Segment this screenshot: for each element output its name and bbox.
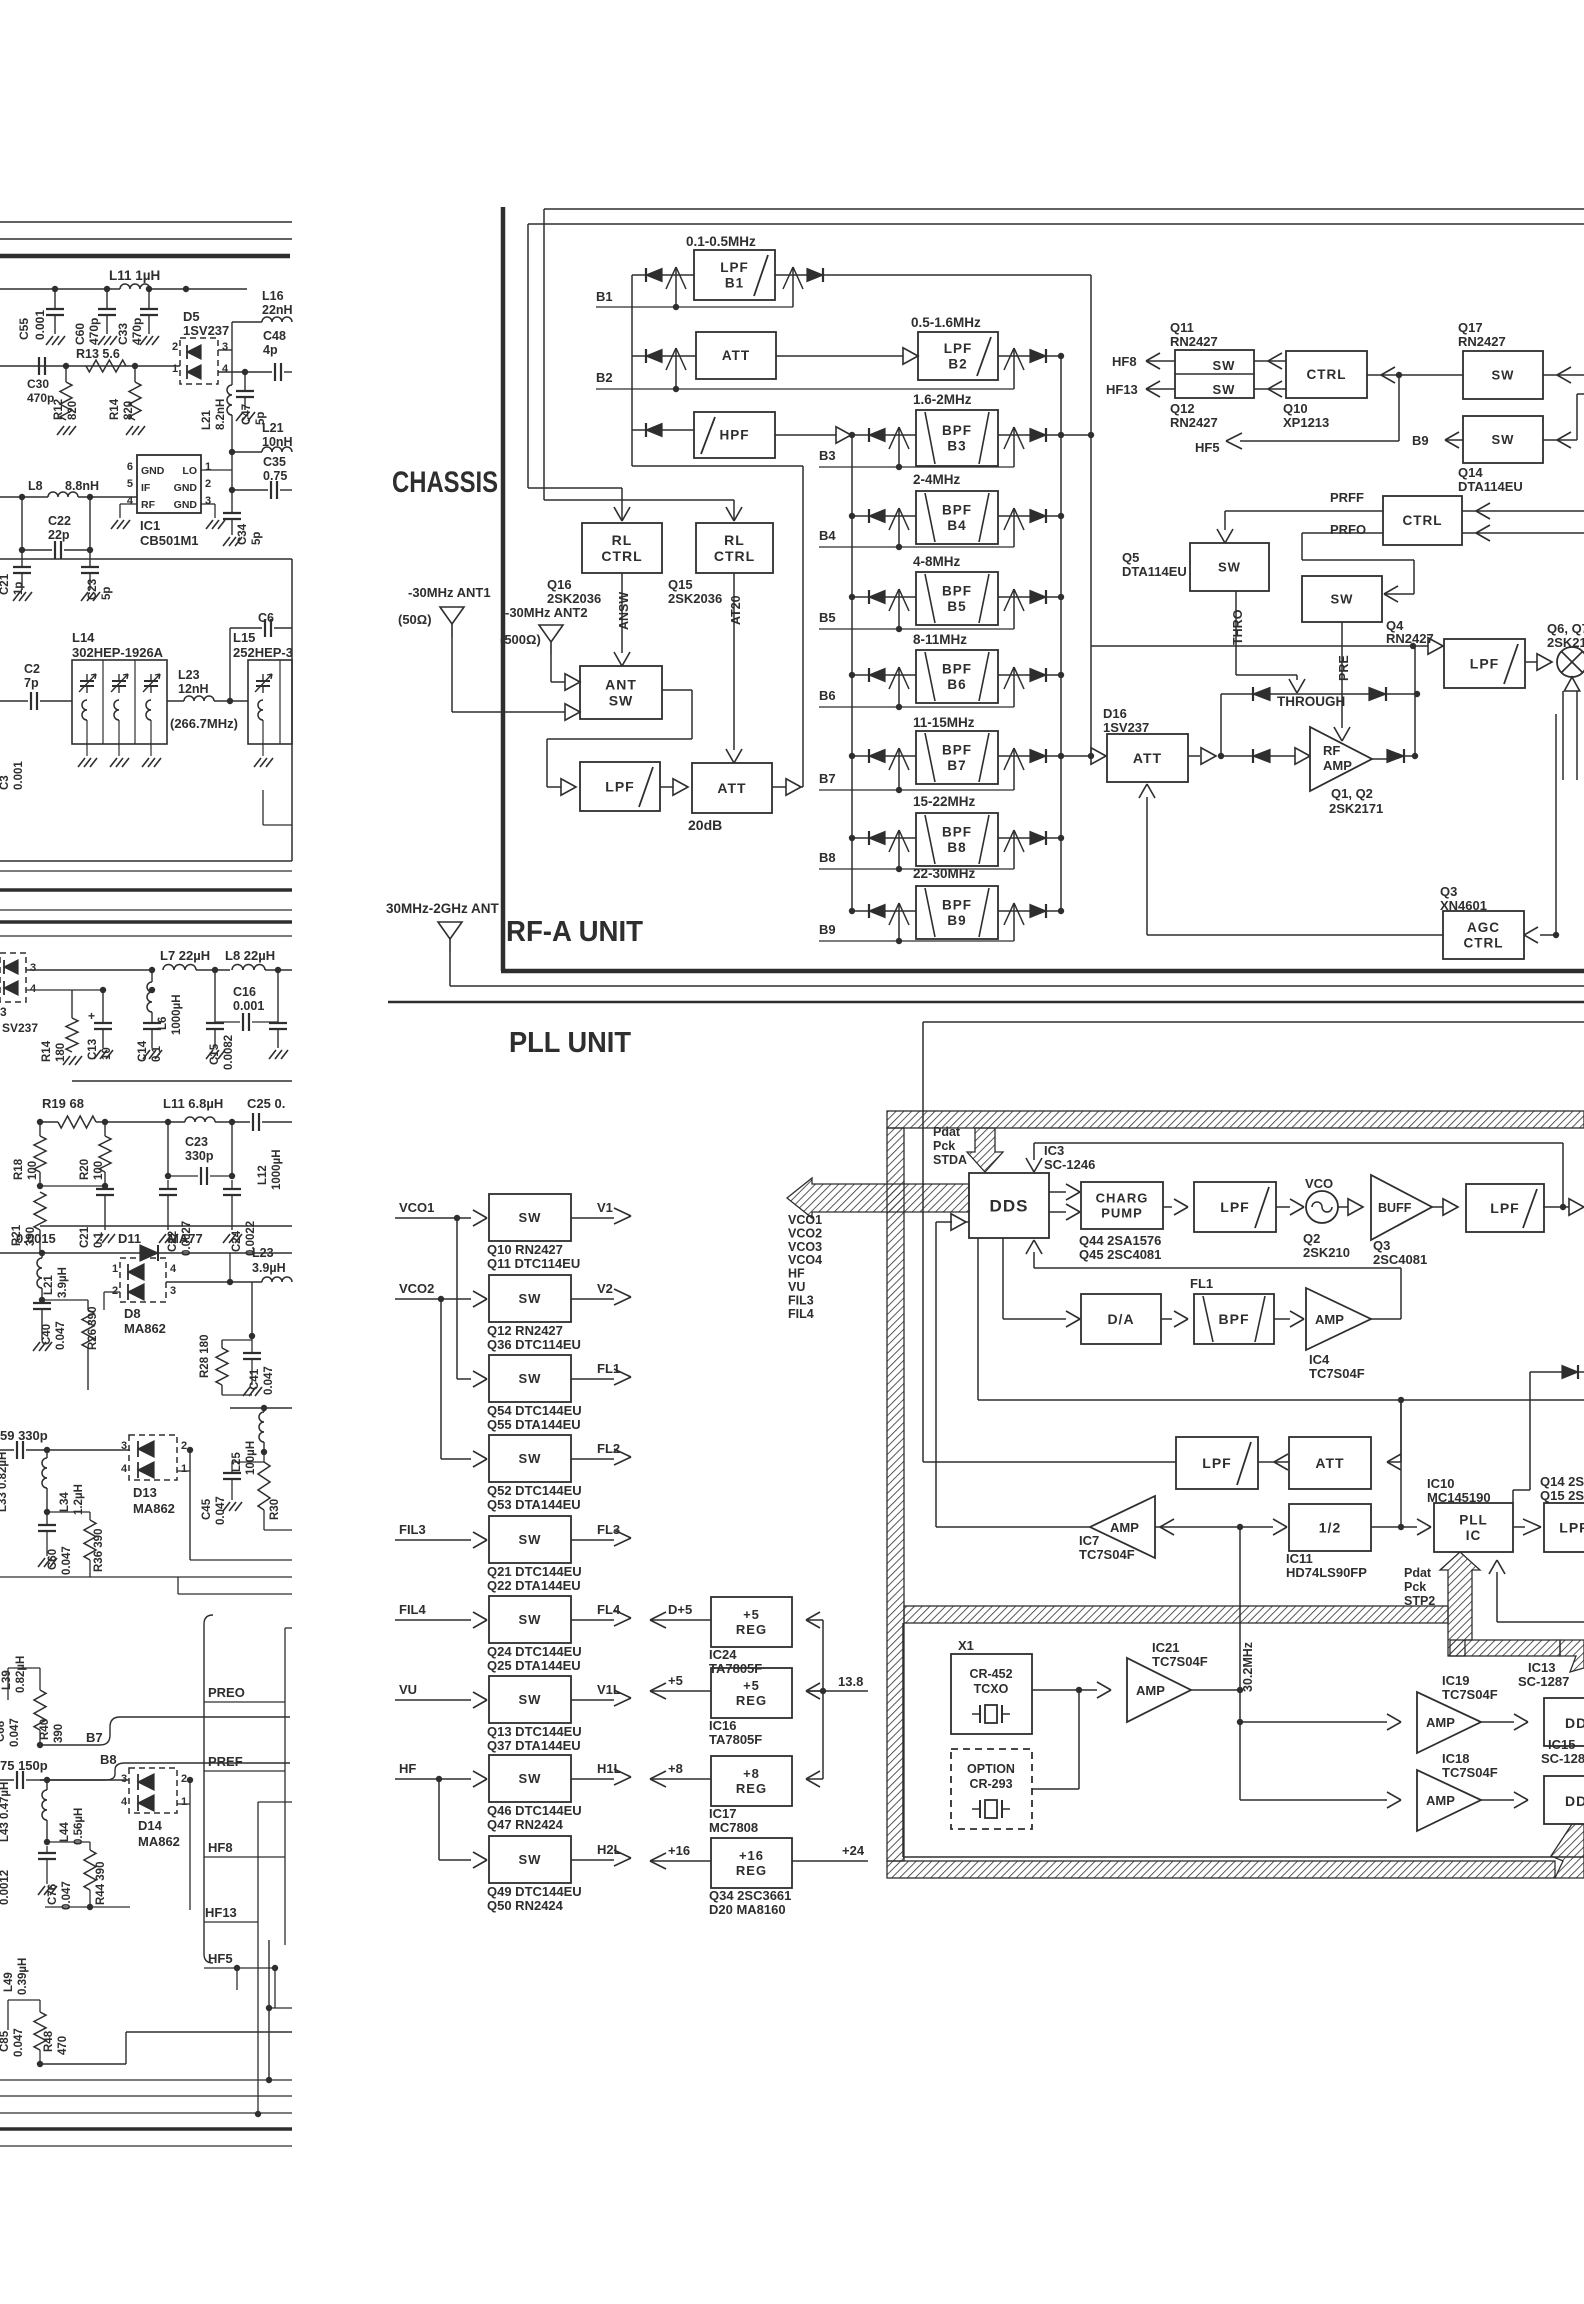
svg-text:C68: C68 xyxy=(0,1720,7,1742)
pin diode switch B1 left xyxy=(675,267,677,307)
svg-text:C25 0.: C25 0. xyxy=(247,1096,285,1111)
svg-text:IC: IC xyxy=(1466,1528,1482,1543)
svg-text:GND: GND xyxy=(141,465,165,477)
svg-text:Q37 DTA144EU: Q37 DTA144EU xyxy=(487,1738,581,1753)
svg-text:1: 1 xyxy=(181,1796,187,1808)
block RL CTRL Q16 xyxy=(582,523,662,573)
svg-text:0.75: 0.75 xyxy=(263,469,287,483)
svg-text:L44: L44 xyxy=(59,1822,71,1842)
svg-text:R44 390: R44 390 xyxy=(95,1862,107,1905)
svg-text:IC18: IC18 xyxy=(1442,1751,1469,1766)
diode row B4 right xyxy=(1045,509,1047,523)
svg-text:R14: R14 xyxy=(41,1040,53,1062)
svg-text:Pck: Pck xyxy=(933,1139,955,1153)
row HPF wire xyxy=(632,429,646,431)
svg-text:D11: D11 xyxy=(118,1231,141,1246)
svg-text:L23: L23 xyxy=(178,668,200,682)
svg-text:CTRL: CTRL xyxy=(1403,513,1443,528)
arrow into SW Q13 xyxy=(473,1692,487,1700)
svg-text:BPF: BPF xyxy=(942,423,972,438)
diode row B5 right xyxy=(1045,590,1047,604)
svg-text:3: 3 xyxy=(205,495,211,507)
svg-text:0.047: 0.047 xyxy=(9,1718,21,1747)
PLL unit top border xyxy=(388,1001,1584,1004)
diode pair D14 dashed box xyxy=(129,1768,177,1813)
svg-text:HF5: HF5 xyxy=(1195,440,1220,455)
svg-text:+8: +8 xyxy=(668,1761,683,1776)
svg-text:ATT: ATT xyxy=(722,348,750,363)
block BPF B6 xyxy=(916,650,998,703)
svg-text:+16: +16 xyxy=(739,1848,764,1863)
arrow into SW Q49 xyxy=(473,1852,487,1860)
svg-text:+: + xyxy=(88,1009,95,1023)
svg-text:2SK2036: 2SK2036 xyxy=(547,591,601,606)
wire top left xyxy=(0,288,120,290)
pin diode switch B8 right xyxy=(1013,830,1015,869)
svg-text:PRFO: PRFO xyxy=(1330,522,1366,537)
pin diode switch B2 right xyxy=(1013,348,1015,389)
svg-text:L43 0.47µH: L43 0.47µH xyxy=(0,1782,11,1842)
left bus of BPF bank xyxy=(851,435,853,911)
svg-text:-30MHz ANT2: -30MHz ANT2 xyxy=(505,605,588,620)
svg-text:SW: SW xyxy=(519,1451,542,1466)
wire HF branch to SW9 xyxy=(438,1779,440,1860)
svg-text:B5: B5 xyxy=(947,599,966,614)
svg-text:Q14 2S: Q14 2S xyxy=(1540,1474,1584,1489)
arrow LPF Q6 out xyxy=(1525,661,1537,663)
svg-text:2SK2171: 2SK2171 xyxy=(1329,801,1383,816)
svg-text:Q47 RN2424: Q47 RN2424 xyxy=(487,1817,564,1832)
svg-text:BPF: BPF xyxy=(942,502,972,517)
svg-text:D20 MA8160: D20 MA8160 xyxy=(709,1902,786,1917)
svg-text:0.047: 0.047 xyxy=(61,1546,73,1575)
svg-text:SW: SW xyxy=(609,692,634,708)
svg-text:Q15: Q15 xyxy=(668,577,693,592)
svg-text:RN2427: RN2427 xyxy=(1170,334,1218,349)
svg-text:BPF: BPF xyxy=(942,897,972,912)
chassis boundary thick line xyxy=(501,207,506,971)
mixer LO arrow xyxy=(1564,677,1579,691)
block 1/2 divider IC11 xyxy=(1289,1504,1371,1551)
bottom bus line 4 thick xyxy=(0,2127,292,2130)
block PLL IC xyxy=(1434,1503,1513,1552)
block SW Q17 xyxy=(1463,351,1543,399)
svg-text:R14: R14 xyxy=(109,398,121,420)
svg-text:Q3: Q3 xyxy=(1440,884,1457,899)
svg-text:B7: B7 xyxy=(86,1730,103,1745)
svg-text:Q11: Q11 xyxy=(1170,320,1194,335)
svg-text:L21: L21 xyxy=(201,410,213,430)
bottom bus line 2 xyxy=(0,2095,292,2097)
svg-text:470: 470 xyxy=(57,2036,69,2055)
svg-text:15-22MHz: 15-22MHz xyxy=(913,794,976,809)
svg-text:VCO1: VCO1 xyxy=(399,1200,434,1215)
svg-text:Q55 DTA144EU: Q55 DTA144EU xyxy=(487,1417,581,1432)
block +16 REG xyxy=(711,1838,792,1888)
svg-text:1: 1 xyxy=(112,1263,118,1275)
svg-text:13.8: 13.8 xyxy=(838,1674,863,1689)
svg-text:R19 68: R19 68 xyxy=(42,1096,84,1111)
op-amp AMP IC21 xyxy=(1127,1658,1191,1722)
arrow ATT2 to LPF xyxy=(1274,1461,1289,1463)
svg-text:1000µH: 1000µH xyxy=(271,1149,283,1190)
svg-text:SW: SW xyxy=(519,1771,542,1786)
PRE control arrow xyxy=(1341,622,1343,728)
block RL CTRL Q15 xyxy=(696,523,773,573)
svg-text:L15: L15 xyxy=(233,630,255,645)
wire to AMP IC19 xyxy=(1240,1721,1387,1723)
wire cross 1 xyxy=(190,1559,292,1561)
svg-text:VCO2: VCO2 xyxy=(788,1226,822,1240)
svg-text:BPF: BPF xyxy=(942,661,972,676)
svg-text:C85: C85 xyxy=(0,2030,11,2052)
svg-text:FL4: FL4 xyxy=(597,1602,621,1617)
wire DDS to charge pump lower xyxy=(1049,1211,1066,1213)
svg-text:3: 3 xyxy=(30,962,36,974)
svg-text:3: 3 xyxy=(222,341,228,353)
svg-text:D5: D5 xyxy=(183,309,200,324)
svg-text:LO: LO xyxy=(182,465,197,477)
svg-text:Q36 DTC114EU: Q36 DTC114EU xyxy=(487,1337,581,1352)
svg-text:ATT: ATT xyxy=(1315,1455,1344,1471)
section divider xyxy=(0,558,292,560)
arrow hatched into PLL IC bottom xyxy=(1440,1552,1480,1656)
diode row B9 left xyxy=(849,908,855,914)
diode at right edge xyxy=(1530,1371,1562,1373)
svg-text:11-15MHz: 11-15MHz xyxy=(913,715,975,730)
svg-text:Q53 DTA144EU: Q53 DTA144EU xyxy=(487,1497,581,1512)
wire B2 to trunk xyxy=(1046,355,1061,357)
svg-text:SC-128: SC-128 xyxy=(1541,1751,1584,1766)
svg-text:2: 2 xyxy=(181,1440,187,1452)
inductor L16 xyxy=(262,317,292,322)
svg-text:1.6-2MHz: 1.6-2MHz xyxy=(913,392,972,407)
wire divider to PLL IC xyxy=(1371,1526,1417,1528)
diode RF AMP in xyxy=(1221,755,1253,757)
wire regulator input IC17 xyxy=(808,1778,823,1780)
svg-text:REG: REG xyxy=(736,1781,767,1796)
svg-text:100µH: 100µH xyxy=(245,1441,257,1475)
svg-text:1: 1 xyxy=(172,363,178,375)
svg-text:22nH: 22nH xyxy=(262,303,293,317)
wire ANT2 to ANT SW xyxy=(550,655,552,682)
svg-text:+5: +5 xyxy=(668,1673,683,1688)
svg-text:STDA: STDA xyxy=(933,1153,967,1167)
diode row B3 left xyxy=(852,434,869,436)
block BPF FL1 xyxy=(1194,1294,1274,1344)
svg-text:B9: B9 xyxy=(819,922,836,937)
svg-text:+5: +5 xyxy=(743,1607,760,1622)
RF-A unit bottom border xyxy=(501,969,1584,974)
svg-text:0.047: 0.047 xyxy=(263,1366,275,1395)
svg-text:0.047: 0.047 xyxy=(215,1496,227,1525)
block ATT 20dB xyxy=(692,763,772,813)
svg-text:DDS: DDS xyxy=(990,1196,1029,1215)
svg-text:(50Ω): (50Ω) xyxy=(398,612,432,627)
diode D11 xyxy=(140,1245,158,1261)
svg-text:VCO4: VCO4 xyxy=(788,1253,822,1267)
svg-text:FL3: FL3 xyxy=(597,1522,620,1537)
wire into ATT2 xyxy=(1400,1400,1402,1462)
svg-text:L14: L14 xyxy=(72,630,95,645)
svg-text:IC24: IC24 xyxy=(709,1647,737,1662)
svg-text:B3: B3 xyxy=(819,448,836,463)
supply riser xyxy=(822,1620,824,1779)
bus line 4 thick xyxy=(0,920,292,924)
wire 30MHz antenna to right xyxy=(449,952,451,986)
svg-text:MA862: MA862 xyxy=(124,1321,166,1336)
svg-text:LPF: LPF xyxy=(1490,1200,1519,1216)
svg-text:PREO: PREO xyxy=(208,1685,245,1700)
wire DDS input from loop filter xyxy=(952,1221,969,1223)
block X1 CR-452 TCXO crystal xyxy=(951,1654,1032,1734)
arrow ATT D16 out xyxy=(1188,755,1200,757)
svg-text:IC13: IC13 xyxy=(1528,1660,1555,1675)
svg-text:Q34 2SC3661: Q34 2SC3661 xyxy=(709,1888,791,1903)
svg-text:B8: B8 xyxy=(819,850,836,865)
block LPF main xyxy=(580,762,660,811)
svg-text:1SV237: 1SV237 xyxy=(1103,720,1149,735)
svg-text:5p: 5p xyxy=(101,587,113,600)
svg-text:Q14: Q14 xyxy=(1458,465,1483,480)
arrow into SW Q21 xyxy=(473,1532,487,1540)
svg-text:0.001: 0.001 xyxy=(13,761,25,790)
block LPF pll 2 xyxy=(1466,1184,1544,1232)
svg-text:Q5: Q5 xyxy=(1122,550,1139,565)
arrow wire into PLL IC bottom second xyxy=(1496,1572,1498,1622)
diode pair D13 dashed box xyxy=(129,1435,177,1480)
svg-text:1: 1 xyxy=(181,1463,187,1475)
block L14 resonator xyxy=(72,660,167,744)
svg-text:L8: L8 xyxy=(28,479,43,493)
arrow into LPF Q6 xyxy=(1415,645,1428,647)
svg-text:0.047: 0.047 xyxy=(61,1881,73,1910)
mixer Q6 Q7 xyxy=(1557,647,1584,677)
svg-text:4: 4 xyxy=(222,363,229,375)
svg-text:RL: RL xyxy=(612,532,633,548)
block BPF B8 xyxy=(916,813,998,866)
PLL outer box xyxy=(923,1021,1584,1023)
hatched zigzag arrow into DDS IC13 xyxy=(1560,1640,1584,1672)
svg-text:2SC4081: 2SC4081 xyxy=(1373,1252,1427,1267)
arrow into SW Q54 xyxy=(473,1371,487,1379)
diode THROUGH left xyxy=(1221,693,1253,695)
svg-text:4: 4 xyxy=(30,983,37,995)
diode row B2 right xyxy=(1045,349,1047,363)
input arrow ANT SW lower xyxy=(565,704,580,721)
svg-text:L21: L21 xyxy=(43,1275,55,1295)
svg-text:L21: L21 xyxy=(262,421,284,435)
wire D14 out xyxy=(177,1803,190,1805)
svg-text:L7 22µH: L7 22µH xyxy=(160,948,210,963)
wire SW Q17 out to CTRL xyxy=(1367,374,1463,376)
svg-text:AMP: AMP xyxy=(1426,1793,1455,1808)
svg-text:0.001: 0.001 xyxy=(33,310,47,340)
svg-text:L11 6.8µH: L11 6.8µH xyxy=(163,1096,223,1111)
svg-text:Q10 RN2427: Q10 RN2427 xyxy=(487,1242,563,1257)
wire ANT SW to LPF xyxy=(662,689,692,691)
pin diode switch B5 right xyxy=(1013,589,1015,629)
svg-text:L12: L12 xyxy=(257,1165,269,1185)
svg-text:TC7S04F: TC7S04F xyxy=(1442,1765,1498,1780)
wire CTRL to SW Q12 xyxy=(1254,388,1286,390)
block BPF B5 xyxy=(916,572,998,625)
svg-text:3.9µH: 3.9µH xyxy=(57,1267,69,1298)
arrow charge pump to LPF xyxy=(1163,1206,1172,1208)
svg-text:OPTION: OPTION xyxy=(967,1762,1015,1776)
svg-text:Q11 DTC114EU: Q11 DTC114EU xyxy=(487,1256,580,1271)
svg-text:B3: B3 xyxy=(947,438,966,453)
bottom bus line 3 xyxy=(0,2112,292,2114)
svg-text:Q50 RN2424: Q50 RN2424 xyxy=(487,1898,564,1913)
clock distribution riser xyxy=(1239,1527,1241,1800)
svg-text:C16: C16 xyxy=(233,985,256,999)
svg-text:V1L: V1L xyxy=(597,1682,621,1697)
svg-text:CTRL: CTRL xyxy=(1307,367,1347,382)
section bottom xyxy=(0,860,292,862)
svg-text:ANSW: ANSW xyxy=(617,592,631,630)
arrow into LPF B2 xyxy=(903,348,918,365)
arrow into AMP IC21 xyxy=(1079,1689,1097,1691)
svg-text:RN2427: RN2427 xyxy=(1386,631,1434,646)
svg-text:LPF: LPF xyxy=(1559,1519,1584,1535)
wire X1 to AMP IC21 xyxy=(1032,1689,1079,1691)
svg-text:SW: SW xyxy=(519,1532,542,1547)
svg-text:C30: C30 xyxy=(27,377,49,391)
block SW Q21 Q22 xyxy=(489,1516,571,1563)
block LPF pll low xyxy=(1176,1437,1258,1489)
hatched band to DDS IC13 xyxy=(1450,1640,1560,1656)
svg-text:2: 2 xyxy=(181,1773,187,1785)
svg-text:470p: 470p xyxy=(27,391,54,405)
svg-text:AT20: AT20 xyxy=(729,595,743,625)
svg-text:Q3: Q3 xyxy=(1373,1238,1390,1253)
svg-text:30MHz-2GHz ANT: 30MHz-2GHz ANT xyxy=(386,901,500,916)
svg-text:L49: L49 xyxy=(3,1972,15,1992)
block CHARG PUMP xyxy=(1081,1182,1163,1229)
svg-text:HF: HF xyxy=(399,1761,416,1776)
svg-text:+24: +24 xyxy=(842,1843,865,1858)
wire trunk to ATT D16 xyxy=(1061,755,1091,757)
svg-text:R13 5.6: R13 5.6 xyxy=(76,347,120,361)
svg-text:VCO: VCO xyxy=(1305,1176,1333,1191)
arrow into RL CTRL Q16 top xyxy=(614,507,622,521)
svg-text:SW: SW xyxy=(1213,382,1236,397)
svg-text:0.82µH: 0.82µH xyxy=(15,1656,27,1693)
svg-text:HF13: HF13 xyxy=(205,1905,237,1920)
wire PLL IC out to LPF xyxy=(1513,1526,1525,1528)
hatched band bottom xyxy=(887,1861,1555,1878)
block BPF B3 xyxy=(916,410,998,466)
inductor L23 xyxy=(167,700,184,702)
svg-text:390: 390 xyxy=(53,1724,65,1743)
wire AT20 xyxy=(733,573,735,750)
pin diode switch B9 left xyxy=(898,903,900,941)
svg-text:D16: D16 xyxy=(1103,706,1127,721)
svg-text:VCO3: VCO3 xyxy=(788,1240,822,1254)
svg-text:VU: VU xyxy=(399,1682,417,1697)
svg-text:CTRL: CTRL xyxy=(714,548,755,564)
svg-text:C3: C3 xyxy=(0,775,11,790)
wire AMP IC7 input xyxy=(1155,1526,1176,1528)
svg-text:C55: C55 xyxy=(17,318,31,340)
ground IC1 pin4 xyxy=(120,503,137,505)
svg-text:75 150p: 75 150p xyxy=(0,1758,48,1773)
svg-text:20dB: 20dB xyxy=(688,817,722,833)
svg-text:B4: B4 xyxy=(947,518,966,533)
pin diode switch B4 left xyxy=(898,508,900,547)
bypass riser to low-band bus xyxy=(802,466,804,787)
capacitor C25 xyxy=(252,1113,254,1131)
svg-text:IC3: IC3 xyxy=(1044,1143,1064,1158)
svg-text:5p: 5p xyxy=(251,532,263,545)
arrow LPF vco out xyxy=(1543,1206,1584,1208)
diode row HPF left xyxy=(645,423,647,437)
block SW Q4 xyxy=(1302,576,1382,622)
arrow into SW Q24 xyxy=(473,1612,487,1620)
wire AGC CTRL out xyxy=(1147,934,1443,936)
svg-text:Q13 DTC144EU: Q13 DTC144EU xyxy=(487,1724,582,1739)
svg-text:Q12: Q12 xyxy=(1170,401,1195,416)
svg-text:Q44 2SA1576: Q44 2SA1576 xyxy=(1079,1233,1161,1248)
wire C59 row xyxy=(0,1449,14,1451)
svg-text:0.39µH: 0.39µH xyxy=(17,1958,29,1995)
svg-text:LPF: LPF xyxy=(944,341,973,356)
svg-text:ANT: ANT xyxy=(605,676,637,692)
svg-text:IC21: IC21 xyxy=(1152,1640,1179,1655)
svg-text:IC19: IC19 xyxy=(1442,1673,1469,1688)
wire regulator input IC16 xyxy=(808,1690,823,1692)
diode row B8 right xyxy=(1045,831,1047,845)
svg-text:HF5: HF5 xyxy=(208,1951,233,1966)
svg-text:B1: B1 xyxy=(725,275,744,290)
capacitor C48 xyxy=(245,371,272,373)
svg-text:BUFF: BUFF xyxy=(1378,1201,1412,1215)
svg-text:Q1, Q2: Q1, Q2 xyxy=(1331,786,1373,801)
svg-text:C22: C22 xyxy=(48,514,71,528)
svg-text:BPF: BPF xyxy=(942,583,972,598)
arrow into RF AMP xyxy=(1295,748,1310,765)
svg-text:DTA114EU: DTA114EU xyxy=(1458,479,1523,494)
pin diode switch B7 left xyxy=(898,748,900,790)
svg-text:FL1: FL1 xyxy=(1190,1276,1213,1291)
svg-text:X1: X1 xyxy=(958,1638,974,1653)
diode pair D8 dashed box xyxy=(120,1258,166,1302)
block SW Q12 Q36 xyxy=(489,1275,571,1322)
svg-text:180: 180 xyxy=(55,1043,67,1062)
block L15 resonator xyxy=(248,660,292,744)
op-amp AMP IC4 xyxy=(1306,1288,1371,1350)
svg-text:MA862: MA862 xyxy=(133,1501,175,1516)
wire IC1 LO out xyxy=(201,469,232,471)
svg-text:IC4: IC4 xyxy=(1309,1352,1330,1367)
svg-text:SW: SW xyxy=(519,1371,542,1386)
svg-text:3: 3 xyxy=(121,1440,127,1452)
svg-text:FIL3: FIL3 xyxy=(399,1522,426,1537)
svg-text:TC7S04F: TC7S04F xyxy=(1152,1654,1208,1669)
capacitor C17 xyxy=(277,970,279,1022)
svg-text:L8 22µH: L8 22µH xyxy=(225,948,275,963)
op-amp AMP IC19 xyxy=(1417,1692,1481,1753)
ground IC1 pin3 xyxy=(201,503,215,505)
svg-text:Q24 DTC144EU: Q24 DTC144EU xyxy=(487,1644,582,1659)
block +5 REG xyxy=(711,1668,792,1718)
svg-text:MA862: MA862 xyxy=(138,1834,180,1849)
row B2 wire xyxy=(632,355,646,357)
svg-text:12nH: 12nH xyxy=(178,682,209,696)
svg-text:SW: SW xyxy=(519,1852,542,1867)
svg-text:BPF: BPF xyxy=(942,824,972,839)
